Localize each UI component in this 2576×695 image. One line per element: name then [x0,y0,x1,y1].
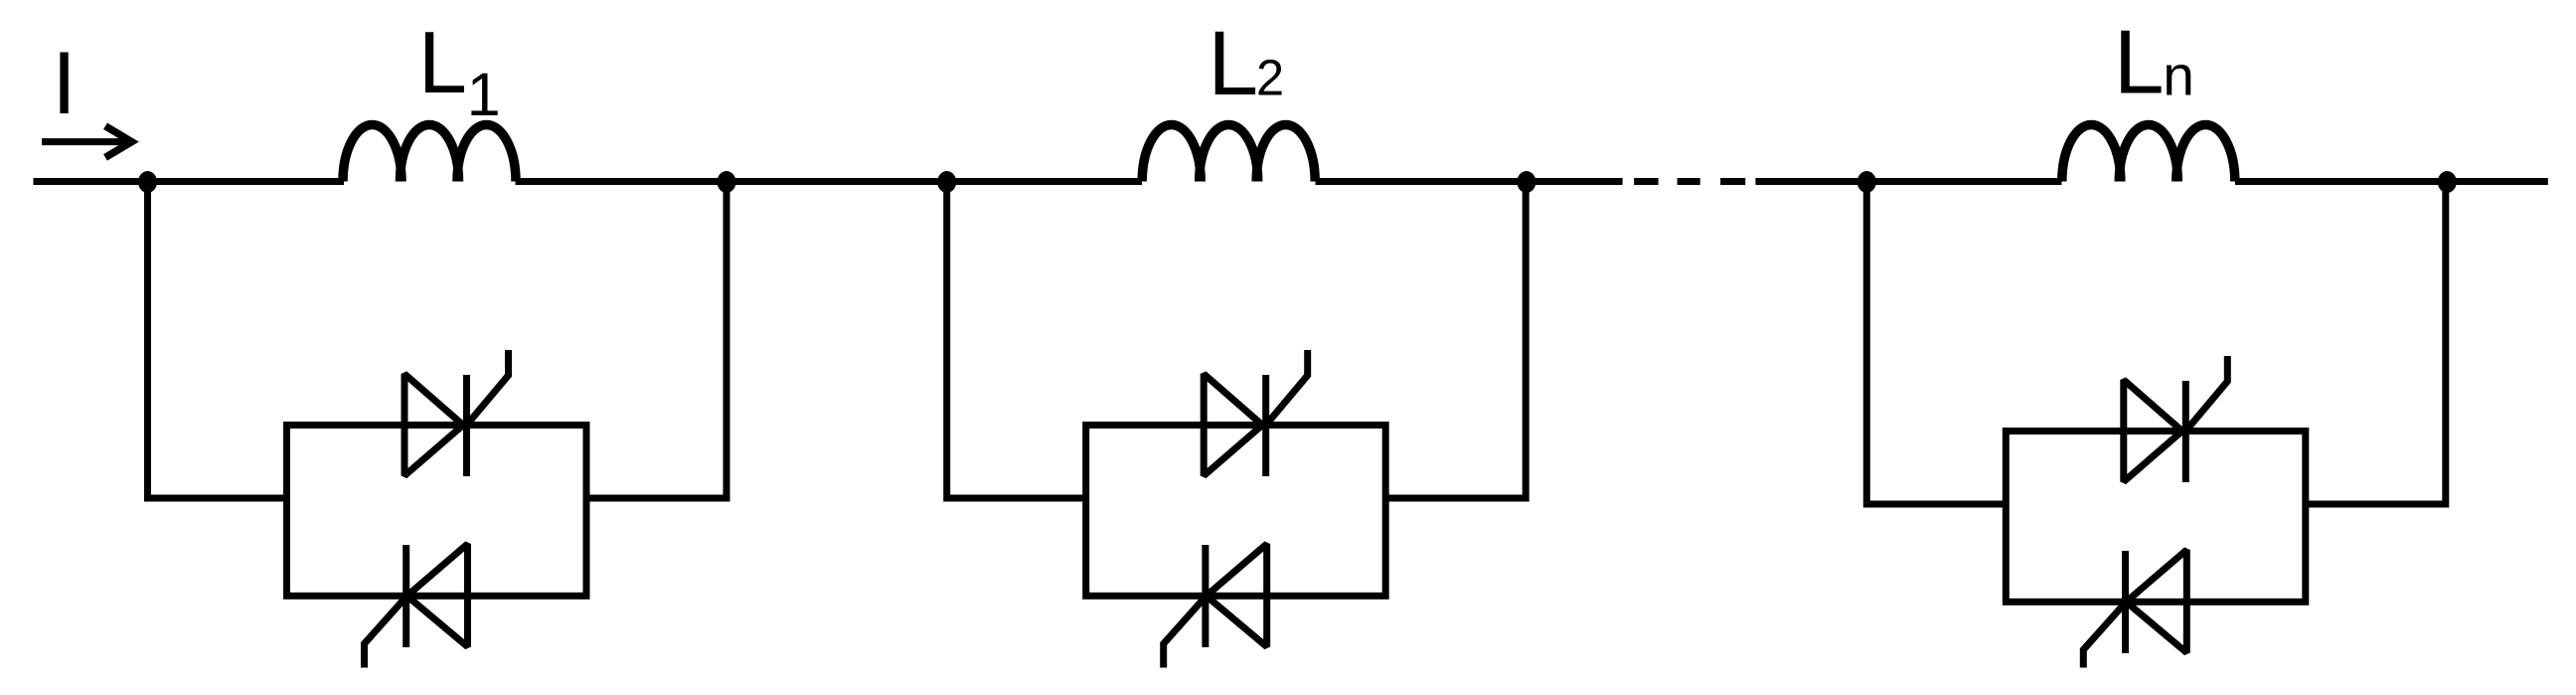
svg-text:L: L [418,13,467,111]
gate lead of bottom thyristor (section 2) [1164,596,1207,667]
wire: right drop + stub to SCR box (section 2) [1385,182,1526,499]
gate lead of bottom thyristor (section n) [2083,602,2126,667]
wire: dashed continuation (omitted sections) [1634,178,1745,185]
wire: top bus segment output feeder [2235,178,2548,185]
svg-text:L: L [2114,12,2165,113]
thyristor (top, conducts left-to-right) of section 2 [1204,350,1308,476]
wire: left drop + stub to SCR box (section 1) [148,182,287,499]
wire: top bus segment after L2 to break [1316,178,1623,185]
wire: rectangular loop enclosing anti-parallel thyristor pair (section 2) [1086,426,1386,597]
wire: right drop + stub to SCR box (section 1) [586,182,726,499]
wire: top bus segment input feeder [34,178,345,185]
thyristor (bottom, conducts right-to-left) of section 2 [1164,544,1267,668]
svg-text:L: L [1207,13,1258,114]
gate lead of top thyristor (section 2) [1266,350,1308,426]
gate lead of top thyristor (section 1) [467,350,509,426]
wire: top bus segment between L1 and L2 [516,178,1143,185]
label L2 [1207,13,1284,114]
label Ln [2114,12,2194,113]
wire: rectangular loop enclosing anti-parallel thyristor pair (section n) [2006,432,2306,603]
thyristor (top, conducts left-to-right) of section 1 [404,350,509,476]
wire: rectangular loop enclosing anti-parallel thyristor pair (section 1) [287,426,587,597]
label L1 [418,13,501,128]
node B2 (junction dot) [1517,171,1535,193]
node Bn (junction dot) [2438,171,2457,193]
wire: top bus segment after break to Ln section [1755,178,2061,185]
svg-text:1: 1 [467,61,501,128]
wire: right drop + stub to SCR box (section n) [2306,182,2446,505]
node An (junction dot) [1857,171,1876,193]
inductor Ln [2062,125,2235,182]
node B1 (junction dot) [718,171,736,193]
wire: left drop + stub to SCR box (section n) [1866,182,2006,505]
gate lead of bottom thyristor (section 1) [365,596,407,667]
svg-text:2: 2 [1256,50,1284,106]
inductor L1 [343,125,516,182]
wire: left drop + stub to SCR box (section 2) [947,182,1086,499]
svg-text:I: I [52,33,77,132]
node A2 (junction dot) [937,171,956,193]
thyristor (top, conducts left-to-right) of section n [2124,356,2228,482]
thyristor (bottom, conducts right-to-left) of section n [2083,550,2186,668]
gate lead of top thyristor (section n) [2185,356,2227,432]
svg-text:n: n [2163,45,2194,108]
current direction arrow [42,126,132,158]
thyristor (bottom, conducts right-to-left) of section 1 [365,544,468,668]
inductor L2 [1142,125,1315,182]
node A1 (junction dot) [138,171,157,193]
